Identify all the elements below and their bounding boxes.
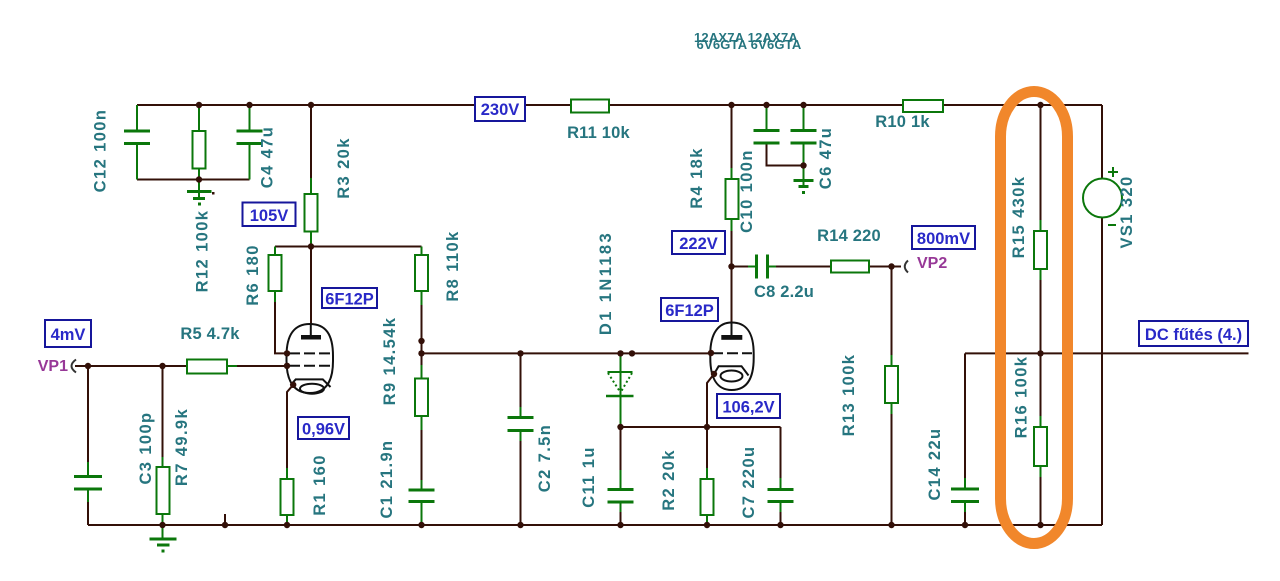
svg-text:C8 2.2u: C8 2.2u: [754, 283, 814, 301]
svg-text:6F12P: 6F12P: [665, 302, 714, 320]
svg-text:C1 21.9n: C1 21.9n: [378, 439, 396, 518]
svg-text:0,96V: 0,96V: [302, 421, 345, 439]
svg-text:VP1: VP1: [38, 358, 68, 375]
svg-text:6V6GTA 6V6GTA: 6V6GTA 6V6GTA: [697, 37, 802, 52]
svg-text:R15 430k: R15 430k: [1010, 176, 1028, 259]
svg-text:C3 100p: C3 100p: [137, 411, 155, 484]
svg-text:C6 47u: C6 47u: [817, 127, 835, 190]
svg-text:222V: 222V: [679, 235, 718, 253]
svg-text:105V: 105V: [250, 207, 289, 225]
svg-text:C11 1u: C11 1u: [580, 446, 598, 508]
svg-text:C14 22u: C14 22u: [926, 427, 944, 500]
svg-text:R9 14.54k: R9 14.54k: [381, 317, 399, 406]
svg-text:R14 220: R14 220: [817, 227, 881, 245]
svg-text:R12 100k: R12 100k: [194, 210, 212, 293]
svg-text:C4 47u: C4 47u: [259, 126, 277, 189]
svg-text:4mV: 4mV: [51, 326, 86, 344]
svg-text:VS1 320: VS1 320: [1118, 175, 1136, 248]
svg-text:D1 1N1183: D1 1N1183: [597, 231, 615, 335]
svg-text:R16 100k: R16 100k: [1013, 356, 1031, 439]
svg-text:R7 49.9k: R7 49.9k: [173, 408, 191, 486]
svg-text:R10 1k: R10 1k: [875, 113, 930, 131]
svg-text:R1 160: R1 160: [311, 454, 329, 516]
svg-text:C7 220u: C7 220u: [740, 445, 758, 518]
svg-text:106,2V: 106,2V: [722, 399, 774, 417]
svg-text:R8 110k: R8 110k: [444, 230, 462, 301]
svg-text:R4 18k: R4 18k: [688, 147, 706, 209]
svg-text:VP2: VP2: [917, 255, 947, 272]
svg-text:C12 100n: C12 100n: [92, 109, 110, 193]
svg-text:R2 20k: R2 20k: [660, 449, 678, 511]
svg-text:R11 10k: R11 10k: [567, 124, 630, 142]
svg-text:6F12P: 6F12P: [325, 291, 374, 309]
svg-text:C2 7.5n: C2 7.5n: [536, 424, 554, 493]
svg-text:R3 20k: R3 20k: [335, 137, 353, 199]
svg-text:230V: 230V: [481, 101, 520, 119]
svg-text:DC fűtés (4.): DC fűtés (4.): [1145, 326, 1242, 344]
svg-text:R5 4.7k: R5 4.7k: [180, 325, 240, 343]
svg-text:C10 100n: C10 100n: [738, 149, 756, 233]
svg-text:800mV: 800mV: [917, 230, 970, 248]
svg-text:R6 180: R6 180: [244, 244, 262, 306]
svg-text:R13 100k: R13 100k: [840, 354, 858, 437]
